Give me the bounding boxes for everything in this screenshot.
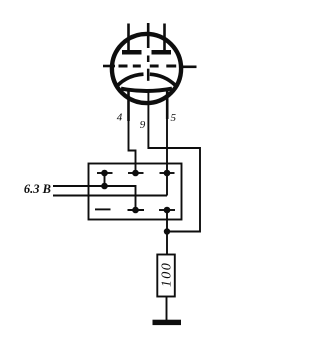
svg-text:100: 100	[159, 262, 174, 287]
wire lug6 to resistor	[166, 210, 168, 255]
anode A2 lead (top right)	[163, 24, 166, 51]
svg-text:9: 9	[140, 119, 146, 131]
resistor R1 value 100	[159, 262, 174, 287]
pin 5 lead from heater	[166, 88, 169, 196]
svg-text:5: 5	[170, 112, 176, 124]
ground symbol	[153, 320, 182, 325]
lug 3 (top-right)	[160, 170, 175, 177]
lug 1 (top-left)	[97, 170, 113, 177]
anode A2 plate bar	[152, 50, 172, 55]
anode A1 plate bar	[122, 50, 142, 55]
shield dashed line (vertical center)	[147, 56, 150, 81]
lug 4 (bottom-left, unused)	[95, 208, 111, 210]
svg-text:6.3 В: 6.3 В	[24, 182, 51, 196]
junction node below strip	[164, 228, 170, 234]
pin 9 label	[140, 119, 146, 131]
heater filament arc	[121, 89, 172, 91]
pin 9 lead (heater center tap) routing wire	[148, 92, 200, 232]
pin 4 label	[117, 112, 123, 124]
cathode K2 arc (right)	[150, 74, 175, 85]
lug 6 (bottom-right)	[159, 207, 175, 214]
6.3 V wire A (upper)	[53, 186, 136, 210]
tube V1 envelope	[112, 34, 181, 103]
terminal strip X1 outline	[89, 164, 182, 220]
lug 2 (top-middle)	[128, 170, 144, 177]
anode A1 lead (top left)	[127, 24, 130, 51]
cathode K1 arc (left)	[118, 74, 144, 85]
6.3 V supply label	[24, 182, 51, 196]
junction dot on wire A	[101, 183, 108, 190]
pin 4 lead from heater	[129, 88, 136, 173]
pin 5 label	[170, 112, 176, 124]
shield lead (top center)	[147, 23, 150, 48]
grid G dashed line with side stubs	[103, 65, 197, 68]
resistor R1 body	[157, 255, 175, 297]
6.3 V wire B (lower)	[53, 195, 167, 197]
wire resistor to ground	[166, 297, 168, 321]
svg-text:4: 4	[117, 112, 123, 124]
link wire lug1 to wire A	[104, 173, 106, 186]
lug 5 (bottom-middle)	[128, 207, 145, 214]
